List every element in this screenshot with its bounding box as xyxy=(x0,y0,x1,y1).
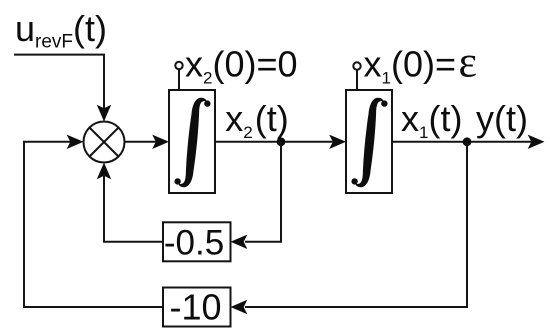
label x1(t) xyxy=(401,98,462,142)
svg-text:-0.5: -0.5 xyxy=(164,224,224,263)
output arrowhead xyxy=(528,135,545,149)
arrowhead into -10 block xyxy=(231,300,248,314)
arrowhead into summing junction (top) xyxy=(97,105,111,122)
svg-text:urevF(t): urevF(t) xyxy=(15,8,107,53)
initial condition terminal x2(0) xyxy=(175,62,182,69)
wire: y(t) node down and left to -10 block xyxy=(245,142,467,307)
integral symbol 1 xyxy=(174,98,210,187)
svg-text:x2(t): x2(t) xyxy=(225,98,288,142)
input label u_revF(t) xyxy=(15,8,107,53)
integrator block 2 xyxy=(346,90,392,193)
wire: integrator 2 output to right edge xyxy=(392,141,531,143)
arrowhead into summing junction (left) xyxy=(67,135,84,149)
gain block -10 xyxy=(163,288,231,327)
arrowhead into integrator 1 xyxy=(152,135,169,149)
node y(t) junction dot xyxy=(463,137,472,146)
wire: -10 block to summing junction (left) xyxy=(24,142,163,307)
node x2(t) junction dot xyxy=(277,137,286,146)
label -10 xyxy=(169,287,221,328)
gain block -0.5 xyxy=(163,222,231,261)
label x2(t) xyxy=(225,98,288,142)
svg-text:y(t): y(t) xyxy=(476,98,528,139)
wire: integrator 1 output to integrator 2 xyxy=(215,141,333,143)
initial condition terminal x1(0) xyxy=(353,62,360,69)
label x1(0)=epsilon xyxy=(364,38,477,88)
svg-text:-10: -10 xyxy=(169,287,221,328)
wire: input u to summing junction xyxy=(14,55,104,109)
label x2(0)=0 xyxy=(185,44,298,88)
wire: summing junction to integrator 1 xyxy=(125,141,157,143)
wire: -0.5 block to summing junction (bottom) xyxy=(104,176,163,242)
label y(t) xyxy=(476,98,528,139)
label -0.5 xyxy=(164,224,224,263)
integral symbol 2 xyxy=(351,98,387,187)
summing junction xyxy=(84,122,125,163)
wire: IC terminal to integrator 2 top xyxy=(356,70,358,90)
svg-text:x1(0)=ε: x1(0)=ε xyxy=(364,38,477,88)
integrator block 1 xyxy=(169,90,215,193)
arrowhead into integrator 2 xyxy=(329,135,346,149)
arrowhead into summing junction (bottom) xyxy=(97,163,111,180)
arrowhead into -0.5 block xyxy=(231,235,248,249)
wire: IC terminal to integrator 1 top xyxy=(178,69,180,90)
svg-text:x2(0)=0: x2(0)=0 xyxy=(185,44,298,88)
svg-text:x1(t): x1(t) xyxy=(401,98,462,142)
wire: x2(t) node down and left to -0.5 block xyxy=(245,142,281,242)
